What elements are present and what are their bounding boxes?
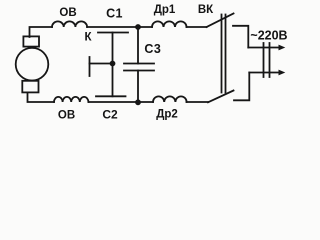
switch VK top fixed contact wire (233, 26, 248, 48)
wire node down to C2 plate (112, 64, 114, 97)
switch mechanical link line 2 (225, 15, 227, 93)
plug pin arrow bottom (249, 72, 279, 74)
inductor OV top (3 arcs) (52, 21, 87, 27)
switch VK bottom fixed contact wire (234, 73, 249, 101)
svg-text:К: К (84, 32, 92, 44)
svg-text:С1: С1 (106, 7, 123, 21)
C3 top plate (124, 63, 154, 65)
svg-text:ОВ: ОВ (59, 7, 76, 19)
svg-text:Др1: Др1 (154, 4, 176, 16)
capacitor C1 plate (to chassis) (98, 32, 128, 34)
junction dot C3 top rail (135, 24, 141, 30)
switch mechanical link line 1 (221, 15, 223, 93)
inductor Dr1 (3 arcs) (152, 21, 187, 27)
motor brush top (23, 36, 39, 46)
switch VK top lever (207, 14, 234, 28)
wire top rail: OV to switch pivot (87, 26, 206, 28)
junction dot C3 bottom rail (135, 99, 141, 105)
chassis terminal K bar (89, 57, 91, 76)
inductor OV bottom (4 arcs) (54, 97, 88, 102)
switch VK bottom lever (208, 91, 234, 103)
plug pin arrow top (248, 47, 279, 49)
svg-text:Др2: Др2 (156, 108, 178, 120)
capacitor C3 vertical between rails (137, 27, 139, 102)
inductor Dr2 (3 arcs) (153, 96, 187, 102)
svg-text:С3: С3 (144, 42, 161, 56)
connector cross line 2 (269, 43, 271, 77)
node junction dot (110, 61, 116, 67)
wire motor bottom to bottom rail (28, 93, 55, 103)
wire motor top to top rail (30, 27, 53, 37)
svg-text:ВК: ВК (198, 4, 214, 16)
svg-text:~220В: ~220В (250, 29, 287, 43)
C3 bottom plate (124, 70, 154, 72)
capacitor C2 plate (96, 95, 126, 97)
motor M armature circle (16, 48, 49, 81)
motor brush bottom (22, 81, 38, 93)
svg-text:С2: С2 (102, 108, 118, 122)
wire K bar to node (90, 63, 113, 65)
svg-text:ОВ: ОВ (58, 110, 75, 122)
wire C1 plate down to node K (112, 33, 114, 64)
wire bottom rail segments (88, 101, 208, 103)
connector cross line 1 (263, 43, 265, 77)
